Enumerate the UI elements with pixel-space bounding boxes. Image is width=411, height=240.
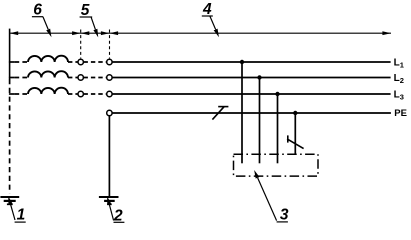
phase row L3: dashed between terminals [84, 93, 107, 95]
line L1 [112, 61, 390, 63]
tap from L3 [277, 94, 279, 163]
line L3 [112, 93, 390, 95]
source bus vertical (left, solid part) [9, 29, 11, 79]
phase row L3: stub [9, 93, 15, 95]
terminal (item 5) col1 L2 [78, 75, 83, 80]
source bus vertical (left, dashed part to earth 1) [9, 79, 11, 194]
junction dot PE tap [293, 111, 297, 115]
disconnect link on PE line [212, 107, 228, 120]
disconnect link on PE tap [287, 135, 304, 148]
label 6 [32, 2, 48, 30]
svg-text:PE: PE [394, 108, 407, 119]
dimension line (net 4 span) [10, 31, 391, 35]
phase row L2: stub [9, 77, 15, 79]
extension line at x=109.5 (dashed) [109, 30, 111, 59]
earth electrode 2 [99, 197, 119, 204]
label 5 [80, 2, 96, 29]
PE down conductor to earth 2 [108, 116, 110, 196]
label 3 [258, 178, 289, 224]
inductor coil L1 (item 6) [28, 56, 68, 62]
phase row L1: dashed lead [15, 61, 28, 63]
label 1 [11, 204, 26, 223]
terminal (item 5) col2 L2 [107, 75, 112, 80]
phase row L2: dashed between terminals [84, 77, 107, 79]
svg-text:4: 4 [202, 1, 212, 18]
label 2 [109, 204, 124, 224]
terminal (item 5) col1 L3 [78, 91, 83, 96]
phase row L3: dashed to terminal [68, 93, 78, 95]
inductor coil L2 (item 6) [28, 71, 68, 77]
svg-text:3: 3 [280, 207, 289, 224]
phase row L3: dashed lead [15, 93, 28, 95]
junction dot L2 tap [257, 75, 261, 79]
phase row L1: dashed to terminal [68, 61, 78, 63]
terminal (item 5) col2 L1 [107, 59, 112, 64]
tap from L1 [241, 62, 243, 163]
extension line at x=80.7 (dashed) [80, 30, 82, 59]
svg-text:6: 6 [33, 2, 42, 19]
line L2 [112, 77, 390, 79]
svg-text:L1: L1 [394, 57, 404, 69]
phase row L2: dashed lead [15, 77, 28, 79]
label 4 [202, 1, 216, 30]
svg-text:L2: L2 [394, 73, 404, 85]
tap from PE [294, 113, 296, 154]
phase row L2: dashed to terminal [68, 77, 78, 79]
tap from L2 [259, 78, 261, 164]
svg-text:L3: L3 [394, 89, 404, 101]
phase row L1: dashed between terminals [84, 61, 107, 63]
svg-text:1: 1 [17, 207, 26, 224]
inductor coil L3 (item 6) [28, 88, 68, 94]
terminal (item 5) col2 L3 [107, 91, 112, 96]
phase row L1: stub [9, 61, 15, 63]
terminal (item 5) col1 L1 [78, 59, 83, 64]
equipment box (item 3, dash-dot) [234, 154, 319, 176]
junction dot L1 tap [240, 60, 244, 64]
earth electrode 1 [0, 197, 19, 204]
junction dot L3 tap [275, 92, 279, 96]
terminal (item 5) PE [107, 110, 112, 115]
line PE [112, 112, 391, 114]
